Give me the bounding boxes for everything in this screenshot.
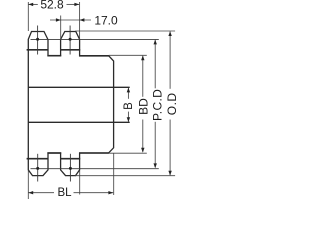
root line tooth 1 bottom <box>27 158 49 160</box>
bore line top <box>28 86 129 88</box>
BD vertical <box>142 56 144 97</box>
svg-text:BD: BD <box>137 98 151 115</box>
BD ext bottom <box>109 152 147 154</box>
OD ext top <box>75 30 175 32</box>
sprocket body outline <box>28 32 113 176</box>
PCD vertical <box>154 40 156 89</box>
svg-text:52.8: 52.8 <box>40 0 64 12</box>
hub surface top (thick) <box>79 55 109 57</box>
tooth centerline t2 bottom <box>69 154 71 182</box>
ext line x79.6 top <box>79 2 81 39</box>
BD down arrow <box>141 148 144 153</box>
52.8 right arrow <box>74 3 79 6</box>
root line tooth 1 top <box>27 49 49 51</box>
BL right arrow <box>108 191 113 194</box>
extension + dimension lines <box>28 2 175 199</box>
BD ext top <box>109 54 147 56</box>
PCD down arrow <box>154 163 157 168</box>
B vertical <box>127 88 129 99</box>
OD vertical <box>169 32 171 89</box>
svg-text:O.D: O.D <box>165 92 179 115</box>
17.0 left arrow (outside, points right) <box>56 18 61 21</box>
OD up arrow <box>168 31 171 36</box>
svg-text:BL: BL <box>57 187 72 199</box>
svg-text:17.0: 17.0 <box>94 13 118 27</box>
17.0 dim line <box>50 19 91 21</box>
hub surface bottom (thick) <box>79 152 109 154</box>
17.0 right arrow (outside, points left) <box>80 18 85 21</box>
B down arrow <box>127 117 130 122</box>
52.8 dim line <box>28 3 37 5</box>
tooth centerline t1 bottom <box>37 154 39 182</box>
B up arrow <box>127 88 130 93</box>
ext line left bottom <box>27 171 29 200</box>
OD ext bottom <box>75 175 175 177</box>
OD down arrow <box>168 171 171 176</box>
PCD up arrow <box>154 40 157 45</box>
gap floor top (thick) <box>47 55 61 57</box>
root line tooth 2 bottom <box>60 158 80 160</box>
52.8 left arrow <box>28 3 33 6</box>
pitch line bottom <box>31 168 159 170</box>
BL left arrow <box>28 191 33 194</box>
ext line x60.7 (17.0 left) <box>60 16 62 40</box>
bore line bottom <box>28 121 129 123</box>
ext line x79.7 bottom <box>79 171 81 195</box>
ext line x113.7 bottom <box>113 153 115 195</box>
BL dim line <box>28 192 54 194</box>
svg-text:P.C.D: P.C.D <box>150 89 164 121</box>
root line tooth 2 top <box>60 49 80 51</box>
tooth centerline t1 top <box>37 26 39 55</box>
gap ceiling bottom (thick) <box>47 152 61 154</box>
pitch center dots <box>36 38 72 170</box>
BD up arrow <box>141 56 144 61</box>
svg-text:B: B <box>123 102 135 110</box>
tooth centerline t2 top <box>69 26 71 55</box>
ext line left x28.3 top <box>27 2 29 31</box>
arrowheads <box>28 3 171 195</box>
pitch line top <box>31 38 159 40</box>
